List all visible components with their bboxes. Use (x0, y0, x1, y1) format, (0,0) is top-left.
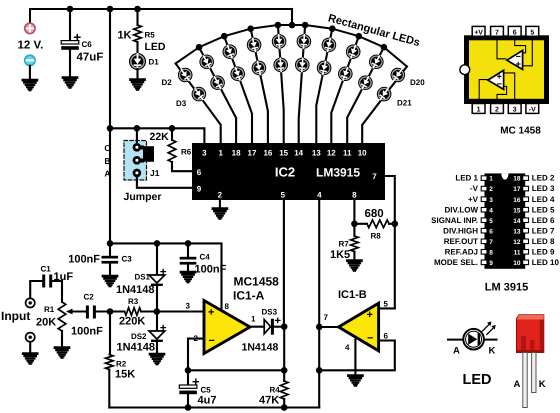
MC1458 bottom pin -V (526, 104, 539, 114)
resistor R6 (171, 128, 173, 140)
LM3915 pin 7 (481, 239, 487, 244)
svg-text:10: 10 (513, 260, 521, 267)
svg-text:6: 6 (197, 168, 202, 177)
svg-text:100nF: 100nF (68, 254, 100, 266)
svg-text:-V: -V (529, 106, 536, 113)
svg-text:2: 2 (495, 106, 499, 113)
svg-text:DIV.HIGH: DIV.HIGH (443, 226, 478, 235)
MC1458 bottom pin 3 (508, 104, 521, 114)
diode DS3 (250, 326, 264, 328)
wire IC1-A pin2 feedback (188, 339, 204, 371)
node C4 (185, 240, 192, 247)
svg-text:4: 4 (345, 343, 350, 352)
svg-text:R5: R5 (145, 31, 156, 40)
svg-text:IC1-B: IC1-B (338, 289, 367, 301)
capacitor C2 (86, 306, 89, 319)
MC1458 notch (460, 65, 470, 75)
op-amp IC1-B (339, 303, 379, 351)
capacitor C1 (42, 275, 45, 288)
svg-text:R3: R3 (128, 297, 139, 306)
resistor R8 (354, 223, 367, 225)
svg-text:R7: R7 (339, 240, 350, 249)
svg-text:7: 7 (495, 29, 499, 36)
node IC1-B out/pin4 (316, 324, 323, 331)
svg-text:DS3: DS3 (262, 308, 278, 317)
LED D1 (129, 53, 146, 70)
node pin8/R7/R8 (351, 221, 358, 228)
capacitor C6 (69, 9, 71, 40)
rectangular LED D14 (320, 36, 337, 53)
diode DS1 (156, 243, 158, 274)
svg-text:1K: 1K (117, 30, 131, 42)
svg-text:D2: D2 (162, 78, 173, 87)
svg-text:12: 12 (513, 239, 521, 246)
node rail-R5 (134, 6, 141, 13)
resistor R3 (125, 308, 142, 316)
MC1458 top pin 6 (508, 26, 521, 36)
LM3915 pin 11 (523, 250, 529, 255)
wire branch D16/D17 to pin (331, 36, 359, 143)
svg-text:4u7: 4u7 (198, 395, 217, 407)
node jumper R6 (169, 125, 176, 132)
svg-text:47K: 47K (259, 395, 279, 407)
LM3915 pin 2 (481, 186, 487, 191)
svg-text:J1: J1 (150, 168, 160, 178)
wire branch D4/D5 to pin (199, 47, 236, 143)
svg-text:5: 5 (489, 218, 493, 225)
wire rail B (109, 406, 319, 408)
rectangular LED D20 (388, 65, 408, 85)
MC1458 op-amp B (507, 50, 523, 69)
rectangular LED D21 (374, 84, 394, 104)
LM3915 pin 13 (523, 228, 529, 233)
svg-text:−: − (367, 333, 373, 345)
wire branch D20/D21 to pin (362, 67, 407, 144)
svg-text:C3: C3 (122, 255, 133, 264)
wire IC2 pin8 down (353, 200, 355, 224)
ground 12V (23, 80, 37, 90)
svg-text:LED 9: LED 9 (532, 247, 555, 256)
svg-text:LED 5: LED 5 (532, 205, 555, 214)
svg-text:18: 18 (232, 149, 241, 158)
wire jumper rail to pin3 (110, 128, 204, 143)
svg-text:−: − (209, 335, 215, 347)
rectangular LED D8 (245, 36, 262, 53)
rectangular LED D12 (296, 34, 312, 50)
rectangular LED D4 (197, 52, 217, 72)
wire -term to ground (29, 66, 31, 80)
node rail A2 (316, 367, 323, 374)
svg-text:LED 6: LED 6 (532, 216, 555, 225)
node jumper rail left (107, 125, 114, 132)
node arc branch 6 (302, 22, 309, 29)
wire anode arc (176, 25, 407, 67)
rectangular LED D19 (356, 73, 376, 93)
svg-text:SIGNAL INP.: SIGNAL INP. (431, 216, 478, 225)
svg-text:15K: 15K (115, 369, 135, 381)
svg-text:17: 17 (248, 149, 257, 158)
svg-text:13: 13 (513, 228, 521, 235)
input jack bottom (26, 333, 35, 342)
svg-text:R1: R1 (44, 305, 55, 314)
wire branch D14/D15 to pin (316, 29, 332, 143)
ground IC1-B (348, 376, 362, 386)
ground input (23, 354, 37, 364)
LM3915 pin 12 (523, 239, 529, 244)
svg-text:13: 13 (312, 149, 321, 158)
svg-text:6: 6 (384, 332, 389, 341)
svg-text:20K: 20K (36, 317, 56, 329)
svg-text:K: K (489, 346, 496, 357)
svg-text:12: 12 (327, 149, 336, 158)
svg-text:C2: C2 (84, 293, 95, 302)
svg-text:REF.OUT: REF.OUT (444, 237, 478, 246)
resistor R4 (283, 370, 285, 381)
svg-text:8: 8 (352, 191, 357, 200)
svg-text:5: 5 (530, 29, 534, 36)
wire IC1-B pin6 feedback (319, 341, 395, 371)
LM3915 pin 10 (523, 260, 529, 265)
svg-text:DS1: DS1 (134, 273, 150, 282)
jumper pin A (133, 169, 142, 178)
svg-text:16: 16 (513, 197, 521, 204)
wire IC2 pin5 down (283, 200, 285, 327)
ground C4 (181, 272, 195, 282)
svg-text:47uF: 47uF (77, 52, 104, 64)
svg-text:7: 7 (489, 239, 493, 246)
node DS1 (154, 240, 161, 247)
node R8/pin7 (392, 221, 399, 228)
ground R7 (347, 261, 361, 271)
svg-text:9: 9 (489, 260, 493, 267)
wire C1 to R1 (52, 281, 62, 302)
rectangular LED D5 (208, 73, 228, 93)
node arc branch 4 (247, 25, 254, 32)
svg-text:3: 3 (489, 197, 493, 204)
rectangular LED D16 (344, 42, 363, 61)
svg-text:5: 5 (384, 300, 389, 309)
MC1458 bottom pin 1 (472, 104, 485, 114)
svg-text:3: 3 (513, 106, 517, 113)
node arc branch 7 (329, 25, 336, 32)
svg-text:LED 4: LED 4 (532, 195, 555, 204)
jumper J1 block (124, 141, 147, 181)
wire jumper A to pin9 (137, 177, 192, 188)
node arc branch 8 (356, 33, 363, 40)
svg-text:C5: C5 (201, 386, 212, 395)
MC1458 top pin +V (472, 26, 485, 36)
ground IC2 pin2 (213, 209, 227, 219)
LM3915 pin 8 (481, 250, 487, 255)
svg-text:15: 15 (513, 207, 521, 214)
svg-text:D21: D21 (397, 99, 412, 108)
red rectangular LED photo (517, 315, 544, 408)
MC1458 internal wiring (479, 36, 532, 103)
wire jack low to ground (29, 342, 31, 353)
svg-text:C: C (104, 143, 110, 153)
svg-text:+V: +V (474, 29, 483, 36)
svg-text:6: 6 (489, 228, 493, 235)
rectangular LED D10 (271, 34, 287, 50)
wire left vertical supply (109, 9, 111, 243)
rectangular LED D9 (250, 59, 267, 76)
wire IC2 pin2 to ground (219, 200, 221, 208)
wire rail to arc (291, 9, 293, 25)
wire C2 to node (96, 310, 125, 312)
svg-text:A: A (514, 379, 521, 390)
wire branch D18/D19 to pin (347, 47, 384, 143)
wire top supply rail (30, 9, 292, 25)
svg-text:DS2: DS2 (131, 332, 147, 341)
wire IC2 pin4 down (318, 200, 320, 408)
resistor R5 (136, 9, 138, 25)
jumper pin C (133, 143, 142, 152)
wire branch D10/D11 to pin (278, 25, 284, 143)
svg-text:1N4148: 1N4148 (117, 342, 156, 354)
svg-text:LED 1: LED 1 (455, 174, 478, 183)
capacitor C4 (187, 243, 189, 256)
svg-text:R8: R8 (371, 232, 382, 241)
node rail-vertical (107, 6, 114, 13)
wire R8 node to IC1-B pin5 (394, 224, 396, 309)
wire DS3 node down (283, 327, 285, 371)
LM3915 pin 1 (481, 176, 487, 181)
svg-text:3: 3 (186, 302, 191, 311)
MC1458 top pin 5 (526, 26, 539, 36)
rectangular LED D7 (228, 64, 247, 83)
svg-text:16: 16 (263, 149, 272, 158)
ground D1 (131, 80, 145, 90)
node arc branch 5 (275, 22, 282, 29)
svg-text:4: 4 (317, 191, 322, 200)
svg-text:C1: C1 (41, 265, 52, 274)
svg-text:220K: 220K (119, 316, 145, 328)
wire branch D8/D9 to pin (251, 29, 268, 143)
node R4 bottom (281, 404, 288, 411)
svg-text:9: 9 (197, 185, 202, 194)
LM3915 pin 15 (523, 207, 529, 212)
wire IC2 pin7 to R8 (385, 176, 395, 224)
svg-text:D20: D20 (410, 78, 425, 87)
svg-text:14: 14 (513, 218, 521, 225)
svg-text:17: 17 (513, 186, 521, 193)
node R4 top (281, 367, 288, 374)
svg-text:11: 11 (514, 249, 521, 256)
ground C3 (103, 276, 117, 286)
MC1458 bottom pin 2 (491, 104, 504, 114)
svg-text:7: 7 (372, 172, 377, 181)
LM3915 pin 9 (481, 260, 487, 265)
LM3915 pin 4 (481, 207, 487, 212)
rectangular LED D2 (175, 65, 195, 85)
svg-text:5: 5 (281, 191, 286, 200)
svg-text:7: 7 (324, 313, 329, 322)
wire V+ rail to IC1-A pin8 (110, 243, 222, 310)
node arc branch 2 (196, 44, 203, 51)
svg-text:Jumper: Jumper (124, 191, 162, 203)
svg-text:LED 3: LED 3 (532, 184, 555, 193)
svg-text:11: 11 (343, 149, 352, 158)
svg-text:LED: LED (145, 41, 166, 53)
svg-text:2: 2 (218, 191, 223, 200)
rectangular LED D17 (336, 64, 355, 83)
svg-text:D1: D1 (149, 58, 160, 67)
rectangular LED D3 (189, 84, 209, 104)
rectangular LED D15 (315, 59, 332, 76)
svg-text:C6: C6 (82, 40, 93, 49)
svg-text:LED 8: LED 8 (532, 237, 555, 246)
IC package MC1458 (464, 35, 549, 104)
node C5 top (185, 367, 192, 374)
node arc branch 3 (221, 33, 228, 40)
battery + terminal (25, 23, 35, 33)
svg-text:680: 680 (365, 208, 384, 220)
svg-text:B: B (104, 156, 110, 166)
LM3915 pin 18 (523, 176, 529, 181)
MC1458 top pin 7 (491, 26, 504, 36)
svg-text:LM3915: LM3915 (316, 166, 360, 180)
battery - terminal (25, 55, 35, 65)
svg-text:R6: R6 (181, 148, 192, 157)
svg-text:18: 18 (513, 176, 521, 183)
svg-text:LM 3915: LM 3915 (485, 282, 528, 294)
LM3915 pin 16 (523, 197, 529, 202)
wire IC1-B pin5 (379, 307, 395, 309)
svg-text:MODE SEL.: MODE SEL. (434, 258, 478, 267)
svg-text:R4: R4 (270, 386, 281, 395)
rectangular LED D11 (273, 57, 289, 73)
node arc branch 9 (381, 44, 388, 51)
op-amp IC1-A (204, 301, 250, 354)
resistor R7 (353, 224, 355, 236)
svg-text:Input: Input (1, 309, 30, 323)
svg-text:IC2: IC2 (275, 165, 295, 180)
svg-text:+: + (208, 307, 214, 319)
svg-text:REF.ADJ: REF.ADJ (445, 247, 478, 256)
LM3915 pin 5 (481, 218, 487, 223)
LED legs (523, 353, 527, 408)
svg-text:8: 8 (225, 302, 230, 311)
svg-text:1N4148: 1N4148 (116, 284, 155, 296)
svg-text:1N4148: 1N4148 (242, 342, 279, 354)
svg-text:6: 6 (513, 29, 517, 36)
ground DS2 (150, 354, 164, 364)
wire IC1-B pin4 gnd (354, 340, 356, 376)
svg-text:DIV.LOW: DIV.LOW (445, 205, 479, 214)
wire R3 to IC1-A pin3 (141, 310, 204, 312)
wire IC1-B pin7 out (319, 326, 338, 328)
svg-text:1: 1 (218, 149, 223, 158)
svg-text:3: 3 (202, 149, 207, 158)
wire branch D6/D7 to pin (224, 36, 252, 143)
ground R1 (55, 348, 69, 358)
LED symbol (448, 339, 463, 341)
svg-text:-V: -V (470, 184, 479, 193)
IC LM3915 IC2 (192, 143, 385, 200)
node DS3/pin5 (281, 323, 288, 330)
rectangular LED D13 (295, 57, 311, 73)
svg-text:22K: 22K (150, 131, 170, 143)
node arc-rail (289, 22, 296, 29)
node C3 (107, 240, 114, 247)
svg-text:12 V.: 12 V. (18, 40, 44, 52)
IC pinout LM3915 (485, 173, 526, 268)
node C5 bottom (185, 404, 192, 411)
svg-text:MC1458: MC1458 (234, 275, 280, 289)
rectangular LED D18 (366, 52, 386, 72)
rectangular LED D6 (220, 42, 239, 61)
svg-text:4: 4 (489, 207, 493, 214)
wire branch D2/D3 to pin (176, 64, 221, 144)
node input/R2/R3 (107, 308, 114, 315)
svg-text:LED 2: LED 2 (532, 174, 555, 183)
resistor R2 (109, 312, 111, 355)
MC1458 op-amp A (488, 70, 504, 89)
LM3915 pin 3 (481, 197, 487, 202)
LM3915 pin 14 (523, 218, 529, 223)
LM3915 pin 17 (523, 186, 529, 191)
svg-text:14: 14 (294, 149, 303, 158)
jumper shorting cap (143, 146, 154, 162)
LED emission arrows (483, 324, 495, 335)
svg-text:K: K (539, 379, 546, 390)
svg-text:1: 1 (477, 106, 481, 113)
node R3/DS1/DS2 (154, 308, 161, 315)
svg-text:100nF: 100nF (195, 264, 227, 276)
svg-text:D3: D3 (176, 99, 187, 108)
LM3915 notch (501, 173, 508, 179)
svg-text:2: 2 (489, 186, 493, 193)
input jack top (26, 298, 35, 307)
node rail-C6 (67, 6, 74, 13)
svg-text:10: 10 (358, 149, 367, 158)
wire rail A1 (188, 369, 284, 371)
capacitor C5 (187, 370, 189, 385)
node jumper C (134, 125, 141, 132)
svg-text:A: A (104, 169, 110, 179)
svg-text:R2: R2 (116, 360, 127, 369)
svg-text:+: + (367, 309, 373, 321)
ground C6 (63, 78, 77, 88)
wire branch D12/D13 to pin (299, 25, 305, 143)
svg-text:A: A (453, 346, 460, 357)
svg-text:1: 1 (251, 315, 256, 324)
svg-text:LED: LED (463, 372, 492, 388)
svg-text:MC 1458: MC 1458 (500, 126, 541, 137)
svg-text:IC1-A: IC1-A (233, 289, 265, 303)
wire jack to C1 (30, 281, 42, 298)
svg-text:1K5: 1K5 (330, 249, 350, 261)
svg-text:+V: +V (468, 195, 479, 204)
svg-text:1: 1 (489, 176, 493, 183)
LM3915 pin 6 (481, 228, 487, 233)
diode DS2 (156, 312, 158, 331)
svg-text:8: 8 (489, 249, 493, 256)
svg-text:C4: C4 (200, 253, 211, 262)
svg-text:100nF: 100nF (71, 326, 103, 338)
svg-text:LED 7: LED 7 (532, 226, 555, 235)
svg-text:15: 15 (279, 149, 288, 158)
capacitor C3 (109, 243, 111, 255)
potentiometer R1 (58, 302, 66, 331)
R1 wiper arrow (70, 310, 86, 312)
svg-text:LED 10: LED 10 (532, 258, 560, 267)
jumper pin B (133, 156, 142, 165)
